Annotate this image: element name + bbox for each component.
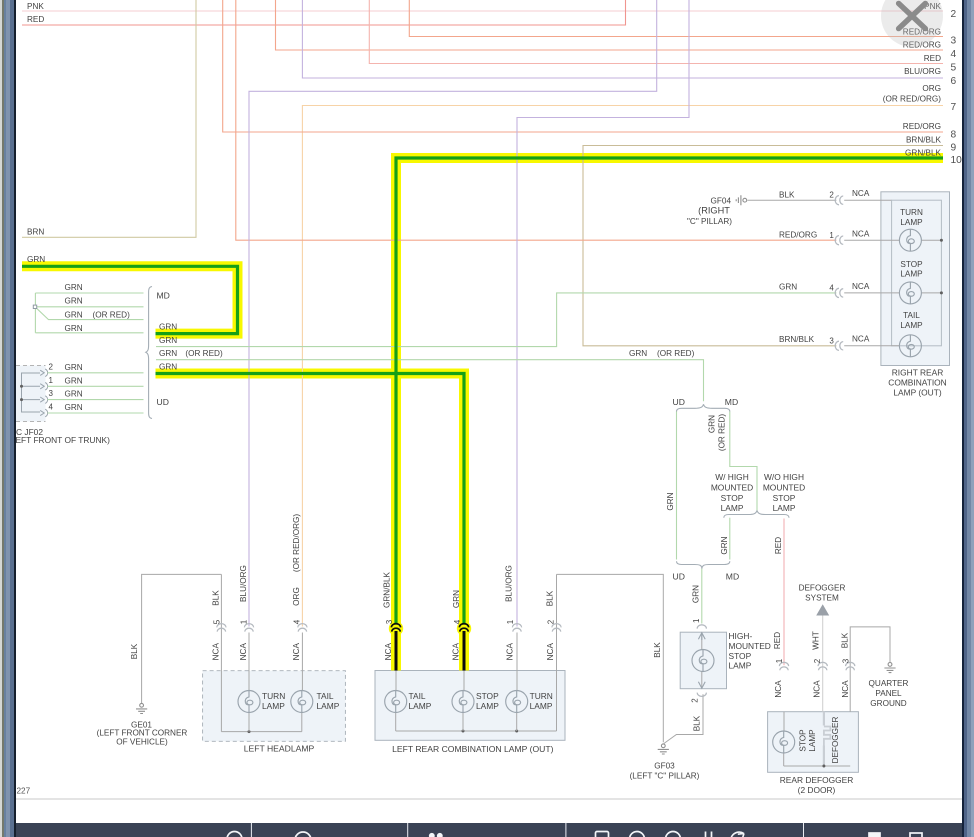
wire stub turn lamp (headlamp): [248, 633, 250, 691]
svg-text:COMBINATION: COMBINATION: [888, 378, 946, 388]
ground GF03: [658, 744, 669, 754]
svg-text:NCA: NCA: [292, 643, 301, 661]
left rear combination lamp box (OUT): [375, 671, 565, 741]
wire BLU/ORG (to left headlamp turn lamp): [249, 0, 657, 627]
junction dot right turn lamp: [940, 239, 943, 242]
svg-text:LAMP: LAMP: [808, 729, 817, 752]
svg-text:REAR DEFOGGER: REAR DEFOGGER: [780, 775, 854, 785]
svg-text:GRN/BLK: GRN/BLK: [905, 148, 941, 157]
ground GE01: [136, 703, 147, 713]
connector rear defogger x=784: [779, 662, 788, 670]
svg-text:(OR RED): (OR RED): [185, 349, 223, 358]
svg-text:NCA: NCA: [452, 643, 461, 661]
svg-text:RED: RED: [774, 537, 783, 554]
svg-text:BLU/ORG: BLU/ORG: [505, 565, 514, 602]
svg-text:LAMP (OUT): LAMP (OUT): [893, 388, 941, 398]
lamp TURN (left rear) L3: [506, 691, 528, 713]
defogger system arrow: [816, 604, 829, 615]
wire GRN (brace to right rear stop lamp pin 4): [156, 293, 836, 347]
brace stop-lamp variants: [724, 510, 789, 517]
highlight bulge at connector pin 4: [457, 621, 471, 635]
svg-text:GRN: GRN: [65, 324, 83, 333]
svg-text:BRN/BLK: BRN/BLK: [779, 335, 815, 344]
wire BLU/ORG (row 6): [302, 0, 943, 78]
svg-text:TURN: TURN: [900, 208, 923, 217]
junction dot right stop lamp: [940, 291, 943, 294]
highlight band GRN feed wire: [22, 266, 238, 333]
svg-text:BLK: BLK: [840, 632, 849, 648]
svg-text:1: 1: [240, 619, 249, 624]
svg-text:4: 4: [293, 619, 302, 624]
svg-text:LAMP: LAMP: [530, 701, 553, 711]
svg-text:HIGH-: HIGH-: [729, 631, 753, 641]
svg-text:GRN: GRN: [159, 349, 177, 358]
svg-text:MOUNTED: MOUNTED: [763, 483, 805, 493]
svg-text:LAMP: LAMP: [900, 321, 923, 330]
svg-text:STOP: STOP: [721, 493, 744, 503]
svg-text:1: 1: [49, 376, 54, 385]
wire black core below connector pin 3: [395, 631, 398, 671]
brace MD/UD merge: [146, 287, 152, 419]
svg-text:2: 2: [813, 658, 822, 663]
wire GRN pin 2 C JF02: [48, 372, 144, 374]
lamp TAIL (right rear): [899, 335, 921, 357]
wire stub rear stop lamp: [783, 712, 785, 731]
svg-text:RED: RED: [924, 54, 941, 63]
svg-text:ORG: ORG: [922, 84, 941, 93]
connector pin 3 GRN/BLK (black): [391, 624, 400, 632]
svg-text:QUARTER: QUARTER: [869, 679, 909, 688]
wire GRN (to high-mounted stop lamp pin 1): [701, 569, 703, 624]
wire right stop lamp to bus: [922, 292, 942, 294]
svg-text:4: 4: [49, 403, 54, 412]
svg-text:6: 6: [951, 76, 957, 87]
svg-text:BLK: BLK: [653, 642, 662, 658]
highlight band GRN wire to stop lamp: [156, 374, 465, 671]
wire GRN/BLK highlighted row 10 (core): [396, 158, 943, 625]
page bottom border: [16, 798, 962, 800]
svg-text:BRN: BRN: [27, 228, 44, 237]
svg-text:"C" PILLAR): "C" PILLAR): [687, 217, 732, 226]
svg-text:(2 DOOR): (2 DOOR): [798, 785, 836, 795]
svg-text:W/ HIGH: W/ HIGH: [715, 472, 749, 482]
wire GRN 4 (upper): [35, 332, 143, 334]
svg-text:BLU/ORG: BLU/ORG: [239, 565, 248, 602]
junction dot defogger bus: [822, 765, 825, 768]
highlight band GRN/BLK wire row 10: [396, 158, 943, 671]
svg-text:GRN: GRN: [666, 492, 675, 510]
arrow down HMSL pin 2: [698, 682, 705, 688]
svg-text:5: 5: [212, 619, 221, 624]
svg-text:NCA: NCA: [852, 334, 870, 343]
svg-text:1: 1: [775, 658, 784, 663]
svg-text:STOP: STOP: [798, 729, 807, 752]
svg-text:GRN: GRN: [720, 536, 729, 554]
svg-text:STOP: STOP: [900, 260, 923, 269]
svg-text:TAIL: TAIL: [903, 311, 920, 320]
svg-text:LAMP: LAMP: [262, 701, 285, 711]
brace UD/MD split 1: [677, 404, 730, 411]
svg-text:LEFT HEADLAMP: LEFT HEADLAMP: [244, 744, 315, 754]
wire stub HMSL top: [701, 632, 703, 649]
wire GRN (OR RED) (brace to UD/MD split): [156, 360, 704, 402]
svg-text:STOP: STOP: [729, 651, 752, 661]
svg-text:GROUND: GROUND: [870, 699, 906, 708]
wire right turn lamp to bus: [922, 239, 942, 241]
pin 4 of C JF02: [40, 409, 47, 417]
connector rear defogger x=850.2: [846, 662, 855, 670]
wire BLK to GF03 (left C pillar): [557, 574, 664, 742]
wire stub tail lamp (headlamp): [301, 633, 303, 691]
wire RED/ORG (row 8): [223, 0, 943, 132]
svg-text:227: 227: [17, 787, 31, 796]
svg-text:NCA: NCA: [852, 282, 870, 291]
svg-text:9: 9: [951, 143, 957, 154]
svg-text:(OR RED/ORG): (OR RED/ORG): [883, 94, 941, 103]
close button X: [899, 3, 926, 28]
svg-text:LAMP: LAMP: [773, 503, 796, 513]
wire GRN 2 (upper): [37, 306, 144, 308]
svg-text:5: 5: [951, 62, 957, 73]
splice marker: [33, 305, 36, 308]
svg-text:MD: MD: [725, 397, 738, 407]
svg-text:(OR RED): (OR RED): [717, 414, 726, 452]
svg-text:NCA: NCA: [239, 643, 248, 661]
svg-text:RIGHT REAR: RIGHT REAR: [892, 367, 944, 377]
lamp STOP (left rear) L2: [452, 691, 474, 713]
svg-text:GRN: GRN: [65, 390, 83, 399]
lamp TAIL (headlamp): [291, 691, 313, 713]
svg-text:(LEFT "C" PILLAR): (LEFT "C" PILLAR): [630, 772, 700, 781]
svg-text:NCA: NCA: [852, 229, 870, 238]
svg-text:BLK: BLK: [212, 590, 221, 606]
svg-text:GRN: GRN: [159, 363, 177, 372]
C JF02 connector region (left front of trunk): [16, 366, 46, 422]
svg-text:WHT: WHT: [812, 631, 821, 650]
connector headlamp turn: [244, 624, 253, 632]
wire PNK (row 2): [22, 10, 943, 12]
svg-text:1: 1: [506, 619, 515, 624]
wire stub tail lamp (left rear): [395, 671, 397, 691]
svg-text:SYSTEM: SYSTEM: [805, 594, 839, 603]
connector left rear ground: [552, 624, 561, 632]
wire RED/ORG (row 3): [409, 0, 943, 37]
svg-text:BLK: BLK: [546, 590, 555, 606]
svg-text:(LEFT FRONT OF TRUNK): (LEFT FRONT OF TRUNK): [8, 435, 110, 445]
svg-text:NCA: NCA: [384, 643, 393, 661]
lamp TURN (headlamp): [238, 691, 260, 713]
wire BLK to GE01 ground: [142, 574, 222, 704]
wire feed right stop lamp: [844, 292, 899, 294]
svg-text:MD: MD: [726, 571, 739, 581]
wire RED/ORG (to right rear turn lamp pin 1): [236, 0, 837, 240]
svg-text:3: 3: [49, 389, 54, 398]
svg-text:(OR RED): (OR RED): [657, 349, 695, 358]
lamp TURN (right rear): [899, 229, 921, 251]
wire GRN highlighted to left rear stop lamp (core): [156, 374, 465, 625]
svg-text:2: 2: [547, 619, 556, 624]
wire RED (row 5): [369, 0, 943, 64]
wire BRN/BLK (row 9, to right rear tail lamp): [583, 146, 943, 346]
svg-text:GRN: GRN: [452, 590, 461, 608]
svg-text:GRN/BLK: GRN/BLK: [383, 571, 392, 607]
connector right rear lamp y=200.2: [835, 196, 843, 205]
wire BLK high-mounted stop lamp to GF03: [664, 694, 703, 743]
wire feed right turn lamp: [844, 239, 899, 241]
svg-text:2: 2: [829, 191, 834, 200]
defogger element: [824, 712, 831, 766]
connector HMSL pin 1: [697, 625, 706, 629]
wire GRN UD branch: [676, 411, 678, 559]
lamp STOP (right rear): [899, 282, 921, 304]
wire GRN pin 1 C JF02: [48, 385, 144, 387]
right rear combination lamp box (OUT): [881, 192, 950, 366]
svg-text:BLU/ORG: BLU/ORG: [904, 67, 941, 76]
connector pin 4 GRN (black): [459, 624, 468, 632]
svg-text:RED/ORG: RED/ORG: [779, 231, 817, 240]
svg-text:GRN: GRN: [159, 336, 177, 345]
svg-text:4: 4: [829, 283, 834, 292]
arrow up HMSL pin 1: [698, 633, 705, 640]
svg-text:4: 4: [951, 49, 957, 60]
lamp TAIL (left rear) L1: [385, 691, 407, 713]
svg-text:NCA: NCA: [812, 680, 821, 698]
junction dot headlamp bus: [248, 730, 251, 733]
svg-text:BRN/BLK: BRN/BLK: [906, 135, 942, 144]
lamp high-mounted stop: [692, 650, 714, 672]
wire BLU/ORG (to left rear turn lamp pin 1): [517, 0, 689, 627]
svg-text:PNK: PNK: [27, 2, 44, 11]
svg-text:3: 3: [951, 36, 957, 47]
svg-text:3: 3: [385, 619, 394, 624]
svg-text:NCA: NCA: [774, 680, 783, 698]
high-mounted stop lamp box: [680, 632, 726, 689]
svg-text:TAIL: TAIL: [317, 691, 334, 701]
svg-text:LAMP: LAMP: [476, 701, 499, 711]
pin 2 of C JF02: [40, 369, 47, 377]
svg-text:BLK: BLK: [779, 190, 795, 199]
svg-text:STOP: STOP: [476, 691, 499, 701]
svg-text:GRN: GRN: [159, 322, 177, 331]
svg-text:GRN: GRN: [779, 283, 797, 292]
wire GRN pin 3 C JF02: [48, 399, 144, 401]
svg-text:LAMP: LAMP: [729, 661, 752, 671]
wire GRN pin 4 C JF02: [48, 412, 144, 414]
connector rear defogger x=822.7: [818, 662, 827, 670]
svg-text:1: 1: [829, 231, 834, 240]
close button circle: [881, 0, 943, 47]
svg-text:BLK: BLK: [130, 643, 139, 659]
svg-text:NCA: NCA: [852, 189, 870, 198]
wire RED/ORG (row 4): [276, 0, 944, 50]
connector bracket C JF02: [22, 373, 41, 412]
svg-text:2: 2: [951, 9, 957, 20]
wire GRN highlighted feed (core): [22, 266, 238, 333]
svg-text:GRN: GRN: [692, 585, 701, 603]
svg-text:GRN: GRN: [65, 297, 83, 306]
wire RED w/o high mounted stop lamp branch (to rear defogger stop lamp): [783, 519, 785, 666]
svg-text:UD: UD: [157, 397, 169, 407]
svg-text:GRN: GRN: [65, 403, 83, 412]
svg-text:MD: MD: [157, 291, 170, 301]
svg-text:BLK: BLK: [693, 715, 702, 731]
svg-text:NCA: NCA: [841, 680, 850, 698]
wire feed right tail lamp: [844, 345, 899, 347]
ground GF04 (sideways): [736, 195, 746, 205]
svg-text:(OR RED): (OR RED): [93, 311, 131, 320]
wire WHT defogger system feed: [822, 616, 824, 712]
svg-text:TURN: TURN: [262, 691, 285, 701]
ground bus ring (right rear lamp): [892, 200, 942, 346]
svg-text:LAMP: LAMP: [317, 701, 340, 711]
svg-text:NCA: NCA: [546, 643, 555, 661]
svg-text:10: 10: [951, 155, 963, 166]
svg-text:2: 2: [49, 362, 54, 371]
svg-text:TURN: TURN: [530, 691, 553, 701]
connector right rear lamp y=292.9: [835, 288, 843, 297]
svg-text:GRN: GRN: [629, 349, 647, 358]
connector headlamp tail: [298, 624, 307, 632]
svg-text:LAMP: LAMP: [409, 701, 432, 711]
svg-text:LAMP: LAMP: [900, 218, 923, 227]
svg-text:1: 1: [692, 618, 701, 623]
wire rear defogger bus: [784, 754, 851, 767]
wire ORG (row 7, down to left headlamp tail lamp): [302, 106, 943, 627]
svg-text:TAIL: TAIL: [409, 691, 426, 701]
wire stub HMSL bottom: [701, 672, 703, 689]
wire black core below connector pin 4: [463, 631, 466, 671]
svg-text:LAMP: LAMP: [900, 270, 923, 279]
svg-text:RED: RED: [773, 632, 782, 649]
wire GRN 3 (OR RED) (upper): [35, 307, 144, 320]
connector HMSL pin 2: [697, 693, 706, 697]
svg-text:OF VEHICLE): OF VEHICLE): [116, 738, 168, 747]
svg-text:(LEFT FRONT CORNER: (LEFT FRONT CORNER: [97, 729, 188, 738]
svg-text:NCA: NCA: [212, 643, 221, 661]
svg-text:LAMP: LAMP: [721, 503, 744, 513]
svg-text:NCA: NCA: [505, 643, 514, 661]
left headlamp box (dashed): [203, 671, 346, 742]
lamp STOP (rear defogger): [773, 731, 795, 753]
junction dot bracket 1: [20, 385, 23, 388]
svg-text:UD: UD: [673, 397, 685, 407]
junction dot turn lamp bus: [515, 730, 518, 733]
svg-text:GRN: GRN: [65, 376, 83, 385]
junction dot bracket 2: [20, 398, 23, 401]
pin 3 of C JF02: [40, 396, 47, 404]
wire BLK headlamp ground bus: [221, 574, 301, 731]
wire BLK left rear lamp ground bus: [396, 574, 557, 731]
connector right rear lamp y=240.2: [835, 236, 843, 245]
svg-text:RED/ORG: RED/ORG: [903, 122, 941, 131]
svg-text:GRN: GRN: [65, 363, 83, 372]
svg-text:(RIGHT: (RIGHT: [698, 206, 730, 216]
wire RED (top left, exits top): [22, 0, 626, 25]
connector left rear turn: [512, 624, 521, 632]
svg-text:MOUNTED: MOUNTED: [729, 641, 771, 651]
wire BRN (to left edge): [22, 0, 196, 237]
wire stub stop lamp (left rear): [463, 671, 465, 691]
wire lamp bottoms to bus (left rear): [396, 713, 517, 732]
svg-text:GRN: GRN: [27, 255, 45, 264]
svg-text:(OR RED/ORG): (OR RED/ORG): [292, 514, 301, 572]
wire GRN w/ high mounted stop lamp branch: [729, 518, 731, 560]
brace UD/MD merge 2: [677, 561, 730, 568]
svg-text:GRN: GRN: [65, 283, 83, 292]
svg-text:DEFOGGER: DEFOGGER: [831, 716, 840, 763]
junction dot stop lamp bus: [462, 730, 465, 733]
svg-text:UD: UD: [673, 571, 685, 581]
svg-text:3: 3: [829, 336, 834, 345]
svg-text:STOP: STOP: [773, 493, 796, 503]
connector right rear lamp y=345.8: [835, 341, 843, 350]
wire stub turn lamp (left rear): [516, 633, 518, 691]
wire BLK rear defogger to quarter panel ground: [850, 627, 890, 712]
connector headlamp ground pin 5: [217, 624, 226, 632]
svg-text:GF04: GF04: [711, 196, 732, 205]
wire BLK GF04 to right rear lamp: [748, 199, 892, 201]
svg-text:7: 7: [951, 102, 957, 113]
svg-text:3: 3: [842, 658, 851, 663]
wire GRN (OR RED) MD branch: [730, 412, 757, 511]
svg-text:GRN: GRN: [65, 311, 83, 320]
svg-text:ORG: ORG: [292, 587, 301, 606]
svg-text:GRN: GRN: [707, 415, 716, 433]
svg-text:4: 4: [453, 619, 462, 624]
rear defogger box (2 door): [768, 712, 859, 773]
highlight bulge at connector pin 3: [389, 621, 403, 635]
ground quarter panel: [884, 663, 895, 673]
wire GRN 1 (upper): [35, 292, 143, 294]
wire lamp bottoms to bus (headlamp): [249, 713, 302, 732]
svg-text:GF03: GF03: [654, 761, 675, 770]
svg-text:PANEL: PANEL: [875, 689, 902, 698]
wire GRN bus (upper group): [34, 293, 36, 333]
svg-text:8: 8: [951, 129, 957, 140]
svg-text:MOUNTED: MOUNTED: [711, 483, 753, 493]
svg-text:2: 2: [690, 698, 699, 703]
svg-text:RED: RED: [27, 15, 44, 24]
pin 1 of C JF02: [40, 383, 47, 391]
svg-text:W/O HIGH: W/O HIGH: [764, 472, 804, 482]
svg-text:DEFOGGER: DEFOGGER: [799, 584, 846, 593]
svg-text:LEFT REAR COMBINATION LAMP (OU: LEFT REAR COMBINATION LAMP (OUT): [392, 744, 554, 754]
